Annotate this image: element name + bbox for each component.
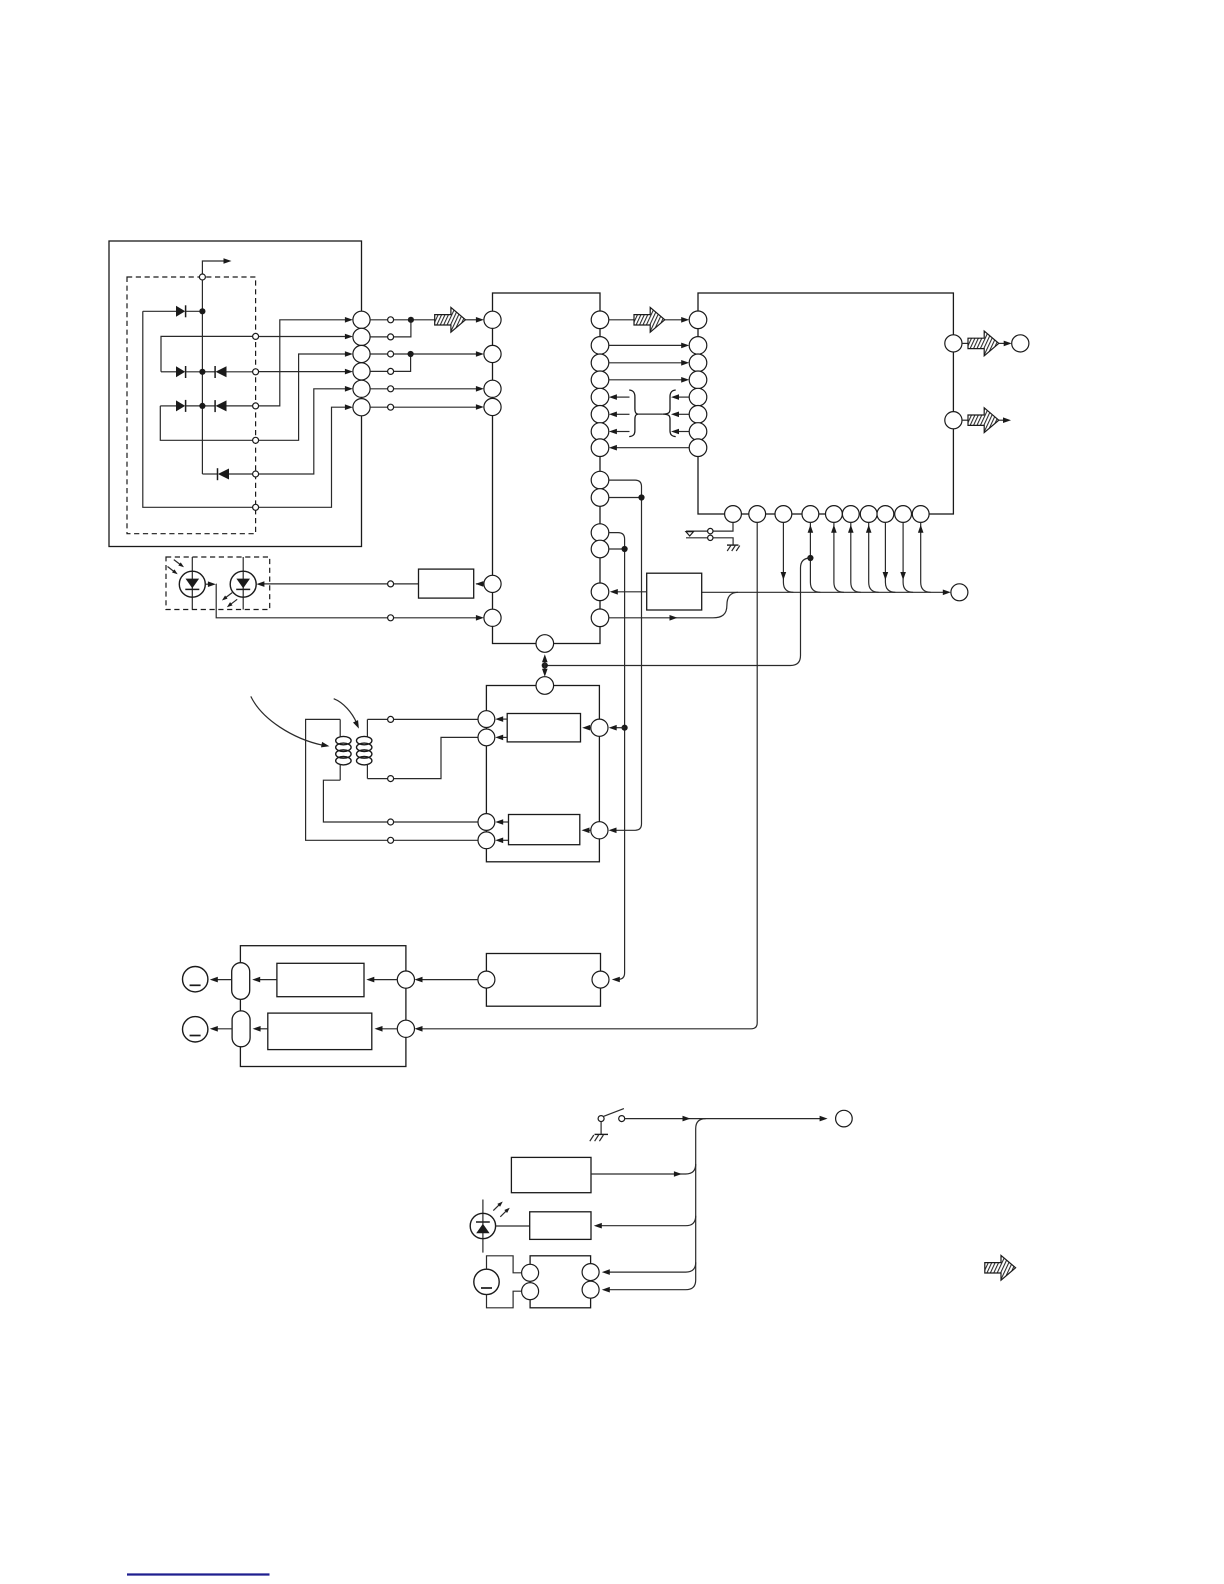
wire LSI tx merge xyxy=(609,592,738,618)
speaker 2 xyxy=(183,1017,208,1042)
wire key scan 1 xyxy=(394,319,435,321)
wire column line 1 xyxy=(143,311,253,507)
wire hook to line terminal xyxy=(625,1118,823,1120)
cable nodes xyxy=(388,317,394,410)
hook switch lever xyxy=(604,1109,624,1117)
control box B1 xyxy=(511,1157,591,1192)
wire bus row4 xyxy=(609,379,685,381)
encoder motor circle xyxy=(474,1269,499,1294)
coupling pill 1 xyxy=(232,963,250,1000)
wire amp to buffer xyxy=(419,979,478,981)
wire bus row1 with cable arrow xyxy=(609,319,634,321)
wire sensor to LSI xyxy=(394,617,479,619)
wire trunk to B3 pin1 xyxy=(606,1262,696,1272)
power rail arrow xyxy=(202,261,227,274)
wire motor bottom loop xyxy=(487,1291,522,1308)
light arrows into PD1 xyxy=(174,560,182,566)
section right pin 1 xyxy=(397,971,414,988)
speaker section box xyxy=(240,946,406,1067)
wire column line 3 xyxy=(160,406,252,440)
wire pin 549 stub xyxy=(609,548,625,550)
wire column line 2 xyxy=(161,336,253,371)
LSI block (panel controller) xyxy=(493,293,601,644)
diode D3 xyxy=(202,371,215,373)
bottom LED xyxy=(482,1200,484,1253)
main block left pins xyxy=(689,311,707,457)
main control block xyxy=(698,293,953,514)
junction dot scan 2 xyxy=(408,351,414,357)
wire node to ndc pin2 xyxy=(394,737,478,778)
main block right pins xyxy=(945,335,962,352)
LSI bottom pin xyxy=(536,635,554,653)
wire pin2 to ampB xyxy=(379,1028,397,1030)
wire PD1 output xyxy=(205,583,211,585)
junction dot net B xyxy=(622,546,628,552)
cable arrow key lines xyxy=(435,307,466,332)
speaker 1 xyxy=(183,967,208,992)
bundled wires rows 5-7 left arrows xyxy=(615,396,630,398)
amp left pin xyxy=(478,971,495,988)
diode D6 xyxy=(202,473,217,475)
wire matrix row d to CN pin3 xyxy=(259,354,348,440)
hook switch contacts xyxy=(598,1116,604,1122)
LSI right pins xyxy=(591,311,609,627)
resistor box R1 xyxy=(419,569,474,598)
wire ampA to trans1 xyxy=(257,979,277,981)
pigtail wire p5 xyxy=(834,522,844,592)
wire node to resistor xyxy=(394,583,419,585)
wire key scan 2 merge xyxy=(394,320,411,337)
junction dot p4 xyxy=(807,555,813,561)
transformer secondary winding xyxy=(366,719,368,737)
node circles on dashed edge xyxy=(253,333,259,510)
coupling left pins xyxy=(478,711,495,849)
chassis triangle xyxy=(686,532,694,536)
wire primary top lead xyxy=(306,719,388,840)
wire pin 497 stub xyxy=(609,497,642,499)
diode D2 xyxy=(161,371,176,373)
wire key scan 3 xyxy=(394,353,479,355)
stub wires to cable nodes xyxy=(370,320,388,407)
arrow clock up xyxy=(544,659,546,666)
pigtail wire p7 xyxy=(869,522,879,592)
wire motor top loop xyxy=(487,1256,522,1273)
wire key scan 4 merge xyxy=(394,354,411,371)
page continuation arrow xyxy=(985,1255,1016,1280)
wire into LSI pin k1 xyxy=(466,319,480,321)
wire pin1 to ampA xyxy=(371,979,397,981)
interface box xyxy=(647,573,702,610)
pigtail wire p6 xyxy=(851,522,861,592)
wire matrix row c to CN pin1 xyxy=(259,320,348,406)
pigtail wire p4 xyxy=(810,522,820,592)
sensor dashed box xyxy=(166,557,270,610)
pigtail wire p10 xyxy=(921,522,931,592)
LSI left pins xyxy=(484,311,501,626)
bundled wires rows 5-7 right arrows xyxy=(676,396,689,398)
harness terminal circle xyxy=(951,584,968,601)
B3 pins xyxy=(522,1264,600,1300)
ground symbol hook xyxy=(595,1133,609,1135)
line nodes transformer xyxy=(388,716,394,843)
key matrix dashed box xyxy=(127,277,256,534)
diode D4 xyxy=(160,405,176,407)
wire trans1 to speaker1 xyxy=(215,979,232,981)
diode D1 xyxy=(143,310,176,312)
wire trunk to B2 xyxy=(599,1216,696,1226)
control box B2 xyxy=(530,1212,591,1240)
wire key scan 6 xyxy=(394,406,479,408)
wire node to ndc pin3 xyxy=(394,821,478,823)
light arrows out bottom LED xyxy=(493,1204,500,1211)
reset switch contact a xyxy=(708,528,713,533)
wire matrix row e to CN pin5 xyxy=(259,389,348,474)
wire B1 to trunk xyxy=(591,1164,696,1174)
footer link line xyxy=(127,1573,270,1575)
annotation arc 2 xyxy=(334,699,357,723)
line terminal circle xyxy=(836,1110,853,1127)
node on dashed edge top xyxy=(199,274,205,280)
output cable arrow 2 xyxy=(962,419,968,421)
wire tap to modulator pin xyxy=(614,727,625,729)
coupling right pins xyxy=(591,719,608,736)
photosensor PD1 xyxy=(191,557,193,610)
wire clock net xyxy=(545,558,811,666)
amp box A xyxy=(277,963,364,996)
annotation arc 1 xyxy=(251,696,323,745)
arrow into driver1 xyxy=(587,727,591,729)
wire pin2 long down xyxy=(419,522,757,1028)
wire secondary bottom lead xyxy=(367,778,387,780)
output cable arrow 1 xyxy=(962,342,968,344)
hook switch ground stem xyxy=(600,1122,602,1135)
junction dot key row2 xyxy=(199,369,205,375)
wire ampB to trans2 xyxy=(257,1028,268,1030)
transformer primary winding xyxy=(339,719,341,737)
wire box to LSI pin xyxy=(615,591,647,593)
connector CN panel pins xyxy=(353,311,370,416)
junction dot key row3 xyxy=(199,403,205,409)
arrow into driver2 xyxy=(587,829,591,831)
junction dot key row1 xyxy=(199,308,205,314)
pigtail wire p9 xyxy=(903,522,913,592)
coupling pill 2 xyxy=(232,1011,250,1047)
reset switch wire b xyxy=(686,538,733,545)
LED LD1 xyxy=(242,557,244,610)
wire matrix row f to CN pin6 xyxy=(259,407,348,507)
wire bus row3 xyxy=(609,362,685,364)
junction dot scan xyxy=(408,317,414,323)
wire node to ndc pin1 xyxy=(394,718,478,720)
brace link wire xyxy=(638,413,663,415)
reset switch contact b xyxy=(708,535,713,540)
light arrows out of LD1 xyxy=(225,593,233,599)
harness wire to terminal xyxy=(702,591,946,593)
arrows driver2 out xyxy=(500,821,509,823)
wire net B from pins 532/549 xyxy=(609,533,625,980)
wire primary bottom lead xyxy=(323,780,387,822)
amp box B xyxy=(268,1013,372,1050)
cable node LED drive xyxy=(388,581,394,587)
junction dot clock xyxy=(542,662,548,668)
brace right xyxy=(663,390,676,437)
wire matrix row b to CN pin4 xyxy=(259,371,348,373)
amplifier block box xyxy=(486,954,600,1007)
junction dot net B tap xyxy=(622,725,628,731)
main block bottom pins xyxy=(725,506,930,523)
driver box 2 xyxy=(509,815,580,845)
key common vertical wire xyxy=(201,280,203,474)
junction dot net A xyxy=(638,494,644,500)
signal trunk wire xyxy=(606,1119,706,1290)
operation panel unit box xyxy=(109,241,362,547)
wire bus row2 xyxy=(609,344,685,346)
wire bus row8 xyxy=(615,447,690,449)
wire LED to B2 xyxy=(496,1225,530,1227)
ground symbol sw xyxy=(727,544,739,546)
wire secondary top lead xyxy=(367,718,387,720)
sensor box B3 xyxy=(530,1256,591,1308)
diode D5 xyxy=(202,405,215,407)
output terminal circle xyxy=(1012,335,1029,352)
wire trans2 to speaker2 xyxy=(215,1028,233,1030)
wire LED drive xyxy=(261,583,388,585)
driver box 1 xyxy=(507,714,580,742)
reset switch wire xyxy=(713,522,733,531)
wire net A from pins 480/497 xyxy=(609,480,642,830)
pigtail wire p3 xyxy=(783,522,793,592)
pigtail wire p8 xyxy=(885,522,895,592)
coupling top pin xyxy=(536,677,554,695)
arrow clock down xyxy=(544,666,546,673)
wire key scan 5 xyxy=(394,388,479,390)
arrows driver1 out xyxy=(500,718,507,720)
section right pin 2 xyxy=(397,1020,414,1037)
wire node to ndc pin4 xyxy=(394,839,478,841)
cable node sensor out xyxy=(388,615,394,621)
brace left xyxy=(629,390,638,437)
wire matrix row a to CN pin2 xyxy=(259,336,348,338)
amp right pin xyxy=(592,971,609,988)
modem coupling block xyxy=(486,686,599,862)
wire LSI to resistor xyxy=(476,583,484,585)
